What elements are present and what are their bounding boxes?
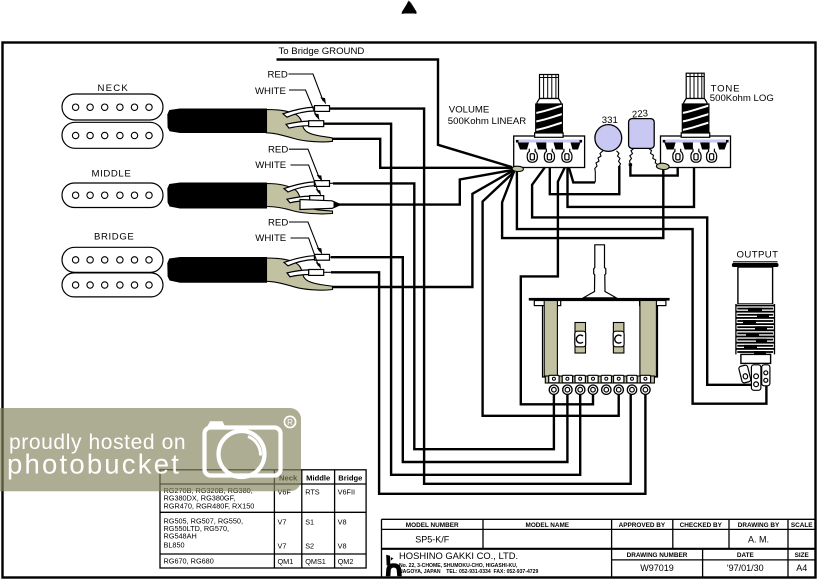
- svg-text:MODEL NUMBER: MODEL NUMBER: [406, 522, 459, 529]
- svg-text:SCALE: SCALE: [791, 522, 813, 529]
- wire ground junction to output jack sleeve: [517, 172, 767, 404]
- pickup NECK coil 1: [62, 94, 163, 120]
- switch mounting ear right: [640, 301, 666, 306]
- volume pot shaft thread: [536, 104, 563, 133]
- svg-text:APPROVED BY: APPROVED BY: [619, 522, 666, 529]
- wire ground junction to switch terminal 6: [483, 172, 619, 416]
- pickup BRIDGE coil 1: [62, 247, 163, 272]
- cable MIDDLE: [167, 183, 267, 209]
- svg-text:BL850: BL850: [164, 541, 185, 550]
- cable BRIDGE white lead tube: [287, 270, 309, 277]
- leader middle red: [289, 149, 320, 178]
- output jack thread: [736, 304, 775, 355]
- cable NECK shield fan: [267, 110, 333, 142]
- wire volume lug3 to capacitor 331 left leg: [567, 162, 595, 182]
- svg-text:SIZE: SIZE: [795, 552, 810, 559]
- output jack barrel: [738, 267, 773, 304]
- title block header text: [406, 522, 813, 559]
- svg-text:BRIDGE: BRIDGE: [94, 231, 134, 242]
- hoshino logo: [386, 555, 402, 576]
- switch terminal 6: [614, 375, 624, 394]
- title block values: [415, 535, 807, 573]
- title block grid: [382, 519, 816, 577]
- volume pot lug 3: [562, 149, 572, 163]
- svg-text:DATE: DATE: [737, 552, 755, 559]
- svg-text:OUTPUT: OUTPUT: [737, 249, 779, 260]
- svg-text:VOLUME: VOLUME: [449, 105, 490, 116]
- volume ground junction solder blob: [512, 166, 523, 171]
- photobucket watermark panel: [0, 408, 301, 491]
- svg-text:RGR470, RGR480F, RX150: RGR470, RGR480F, RX150: [164, 501, 255, 510]
- svg-text:V7: V7: [278, 518, 287, 527]
- cable BRIDGE shield fan: [267, 258, 333, 290]
- photobucket camera icon: [208, 421, 225, 426]
- svg-text:A. M.: A. M.: [748, 535, 769, 545]
- switch terminal 3: [575, 375, 585, 394]
- tone pot lug 2: [691, 149, 701, 163]
- switch terminal 7: [627, 375, 637, 394]
- wire bridge red to switch terminal 2: [331, 257, 567, 462]
- volume pot lug 1: [527, 149, 537, 163]
- svg-text:SP5-K/F: SP5-K/F: [415, 535, 450, 545]
- svg-text:V6FII: V6FII: [338, 488, 355, 497]
- pointer triangle: [402, 0, 417, 14]
- leader bridge red: [289, 222, 320, 251]
- svg-text:A4: A4: [796, 563, 807, 573]
- svg-text:DRAWING NUMBER: DRAWING NUMBER: [627, 552, 688, 559]
- svg-text:500Kohm LINEAR: 500Kohm LINEAR: [448, 116, 526, 127]
- switch contact slot left: [575, 323, 586, 354]
- svg-text:NAGOYA, JAPAN TEL: 052-931-: NAGOYA, JAPAN TEL: 052-931-0334 FAX: 052…: [399, 569, 538, 575]
- pickup BRIDGE coil 2 polepieces: [72, 282, 152, 288]
- tone pot shaft thread: [682, 104, 709, 133]
- tone pot bushing: [681, 133, 710, 138]
- cable NECK: [167, 109, 267, 134]
- wire volume lug1 to ground junction: [522, 162, 529, 167]
- svg-text:No. 22, 3-CHOME, SHUMOKU-CHO,: No. 22, 3-CHOME, SHUMOKU-CHO, HIGASHI-KU…: [399, 563, 518, 569]
- tone pot lug base band: [664, 143, 727, 150]
- wire middle red to switch terminal 1: [333, 183, 554, 449]
- cable BRIDGE white lead tip: [309, 270, 324, 276]
- svg-text:RTS: RTS: [305, 488, 320, 497]
- svg-text:S2: S2: [305, 542, 314, 551]
- svg-text:Bridge: Bridge: [338, 474, 362, 483]
- cable MIDDLE bare wire joint: [300, 200, 341, 210]
- cable NECK white lead tube: [286, 121, 309, 128]
- wire bridge white to switch terminal 8: [331, 272, 645, 494]
- svg-text:NECK: NECK: [98, 83, 129, 94]
- output jack flange line: [733, 261, 778, 263]
- cable NECK red lead tip: [315, 106, 330, 112]
- switch terminal 4: [588, 375, 598, 394]
- leader middle white: [291, 165, 319, 193]
- volume pot lug 2: [544, 149, 554, 163]
- wire volume lug2 to capacitor 331 right leg: [550, 162, 620, 194]
- svg-text:'97/01/30: '97/01/30: [727, 563, 764, 573]
- svg-text:WHITE: WHITE: [255, 86, 286, 97]
- svg-text:RG548AH: RG548AH: [164, 532, 197, 541]
- tone pot lug 3: [707, 149, 717, 163]
- svg-text:500Kohm LOG: 500Kohm LOG: [710, 93, 774, 104]
- pickup MIDDLE coil: [62, 183, 163, 208]
- svg-text:MODEL NAME: MODEL NAME: [526, 522, 570, 529]
- photobucket registered mark: [284, 416, 295, 427]
- capacitor 223 leg right: [649, 148, 658, 165]
- cable MIDDLE white lead tip: [310, 196, 324, 202]
- cable BRIDGE red lead tube: [284, 256, 315, 266]
- switch terminal 5: [601, 375, 611, 394]
- tone pot lug 1: [673, 149, 683, 163]
- wire middle white+shield to volume ground junction: [339, 170, 514, 205]
- cable BRIDGE red lead tip: [315, 254, 330, 260]
- svg-text:RG670, RG680: RG670, RG680: [164, 557, 214, 566]
- tone pot top lavender strip: [662, 140, 729, 143]
- switch contact slot left roller: [575, 331, 586, 347]
- svg-text:QM1: QM1: [278, 557, 294, 566]
- switch lever: [583, 245, 616, 298]
- volume pot lug base band: [518, 143, 581, 150]
- cable NECK white lead tip: [309, 121, 324, 127]
- svg-text:RED: RED: [268, 69, 288, 80]
- svg-text:QMS1: QMS1: [305, 557, 326, 566]
- switch terminal 8: [640, 375, 650, 394]
- svg-text:223: 223: [632, 108, 649, 120]
- svg-text:photobucket: photobucket: [7, 449, 181, 480]
- capacitor 331: [595, 125, 622, 152]
- pickup BRIDGE coil 2: [62, 273, 163, 297]
- wire neck shield to volume ground junction: [332, 139, 512, 168]
- switch terminal 1: [549, 375, 559, 394]
- wire bridge shield to volume ground junction: [332, 170, 514, 287]
- output jack lug left: [738, 365, 751, 384]
- svg-text:DRAWING BY: DRAWING BY: [738, 522, 780, 529]
- pickup MIDDLE polepieces: [72, 192, 152, 198]
- cable NECK red lead tube: [283, 107, 315, 117]
- svg-text:MIDDLE: MIDDLE: [92, 168, 132, 179]
- cable MIDDLE shield fan: [267, 184, 333, 214]
- leader neck white: [289, 90, 317, 117]
- capacitor 331 leg left: [595, 151, 603, 183]
- wire volume lug2 to output jack tip: [532, 162, 754, 385]
- model table body text: [164, 486, 356, 566]
- capacitor 223 leg left: [630, 148, 634, 164]
- leader bridge white: [291, 238, 319, 266]
- output jack lug right (sleeve): [762, 365, 770, 386]
- switch terminal 2: [562, 375, 572, 394]
- svg-text:Middle: Middle: [306, 474, 330, 483]
- cable MIDDLE white lead tube: [287, 196, 310, 203]
- switch mounting ear left: [534, 301, 560, 306]
- tone pot shaft knurl: [686, 73, 704, 98]
- svg-text:S1: S1: [305, 518, 314, 527]
- wire to bridge ground: [277, 60, 513, 168]
- wire volume lug3 to switch terminal 4: [521, 162, 593, 404]
- wire ground junction to tone ground: [502, 169, 663, 238]
- output jack flange: [732, 263, 779, 267]
- pickup BRIDGE coil 1 polepieces: [72, 257, 152, 263]
- svg-text:331: 331: [602, 115, 618, 126]
- pickup NECK coil 2 polepieces: [72, 132, 152, 138]
- svg-text:RED: RED: [268, 144, 288, 155]
- volume pot bushing: [535, 133, 564, 138]
- volume pot shaft knurl: [540, 75, 559, 99]
- model table header text: [279, 474, 362, 483]
- svg-text:QM2: QM2: [338, 557, 354, 566]
- switch contact slot right: [613, 323, 624, 354]
- output jack lug middle (tip): [751, 365, 761, 391]
- cable MIDDLE red lead tube: [284, 182, 315, 192]
- switch terminal strip: [545, 376, 654, 383]
- svg-text:RED: RED: [268, 217, 288, 228]
- svg-text:HOSHINO GAKKI CO., LTD.: HOSHINO GAKKI CO., LTD.: [399, 550, 518, 561]
- cable BRIDGE: [167, 257, 267, 283]
- svg-text:WHITE: WHITE: [255, 233, 286, 244]
- svg-text:WHITE: WHITE: [255, 160, 286, 171]
- svg-text:V7: V7: [278, 542, 287, 551]
- svg-text:W97019: W97019: [640, 563, 674, 573]
- volume pot top lavender strip: [516, 140, 583, 143]
- model table grid: [160, 470, 366, 568]
- wire capacitor 223 left leg to tone lug1: [630, 162, 677, 176]
- tone pot body: [661, 136, 731, 168]
- switch body: [543, 301, 658, 378]
- svg-text:V8: V8: [338, 518, 347, 527]
- svg-text:V8: V8: [338, 542, 347, 551]
- switch side rail left: [544, 301, 557, 377]
- svg-text:CHECKED BY: CHECKED BY: [680, 522, 723, 529]
- switch mounting plate: [529, 298, 670, 301]
- wire neck red to switch terminal 7: [330, 109, 631, 484]
- switch contact slot right roller: [613, 331, 624, 347]
- wire neck white to switch terminal 3: [324, 124, 580, 475]
- pickup NECK coil 2: [62, 122, 163, 148]
- switch side rail right: [640, 301, 657, 377]
- svg-text:To Bridge GROUND: To Bridge GROUND: [279, 46, 365, 57]
- output jack collar: [741, 354, 771, 363]
- pickup NECK coil 1 polepieces: [72, 104, 152, 110]
- svg-text:R: R: [287, 418, 293, 427]
- wire volume lug3 to tone lug2: [568, 162, 695, 207]
- leader neck red: [289, 74, 324, 101]
- tone ground solder blob: [656, 163, 669, 169]
- cable MIDDLE red lead tip: [315, 181, 330, 187]
- capacitor 223: [629, 119, 655, 149]
- volume pot body: [514, 136, 585, 168]
- capacitor 331 leg right: [617, 151, 621, 166]
